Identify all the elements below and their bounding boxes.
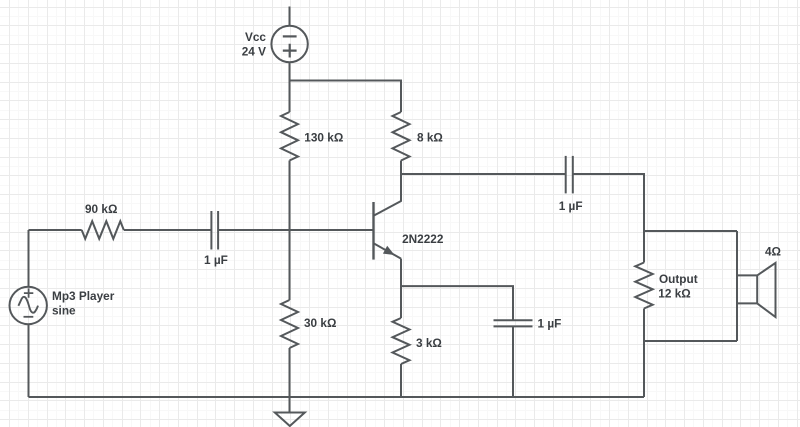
svg-text:1 µF: 1 µF xyxy=(559,199,583,213)
wire speaker loop top xyxy=(644,230,737,232)
wire emitter to R6 xyxy=(400,259,402,318)
capacitor C2 output 1uF xyxy=(566,156,573,194)
svg-text:sine: sine xyxy=(52,303,76,317)
wire C1 to base xyxy=(218,229,373,231)
svg-text:30 kΩ: 30 kΩ xyxy=(304,316,336,330)
svg-text:Output: Output xyxy=(659,272,698,286)
wire top branch node to 8k column xyxy=(290,81,402,113)
resistor R2 8 kOhm xyxy=(393,112,410,161)
source V1 Mp3 Player sine xyxy=(10,287,47,324)
svg-text:1 µF: 1 µF xyxy=(204,253,228,267)
speaker LS1 4 Ohm xyxy=(737,263,776,317)
wire bottom rail xyxy=(29,396,645,398)
svg-text:12 kΩ: 12 kΩ xyxy=(658,286,690,300)
svg-text:4Ω: 4Ω xyxy=(765,245,781,259)
wire left rail bottom (source to ground rail) xyxy=(28,324,30,397)
svg-text:Vcc: Vcc xyxy=(245,30,266,44)
wire R6 bottom to bottom rail xyxy=(400,364,402,397)
wire left rail top (input node to source) xyxy=(28,230,30,287)
svg-text:Mp3 Player: Mp3 Player xyxy=(52,289,115,303)
wire speaker loop right xyxy=(736,231,738,341)
wire R5 bottom to bottom rail xyxy=(643,309,645,398)
wire R3 to C1 xyxy=(124,229,212,231)
resistor R1 130 kOhm xyxy=(281,112,298,161)
wire C3 bottom to bottom rail xyxy=(512,326,514,397)
wire C2 to output rail xyxy=(573,174,644,263)
svg-text:90 kΩ: 90 kΩ xyxy=(85,202,117,216)
wire speaker loop bottom xyxy=(644,340,737,342)
resistor R6 3 kOhm xyxy=(393,318,410,364)
resistor R3 90 kOhm xyxy=(82,221,124,239)
capacitor C1 input 1uF xyxy=(211,211,218,250)
resistor R4 30 kOhm xyxy=(281,300,298,348)
wire R2 bottom to collector xyxy=(400,161,402,202)
ground xyxy=(275,413,305,427)
wire top stub above Vcc xyxy=(289,7,291,26)
svg-text:1 µF: 1 µF xyxy=(538,317,562,331)
wire emitter branch to C3 xyxy=(401,286,513,320)
svg-text:24 V: 24 V xyxy=(242,44,266,58)
svg-text:2N2222: 2N2222 xyxy=(402,232,444,246)
resistor R5 Output 12 kOhm xyxy=(635,263,652,309)
label Output 12 kOhm xyxy=(658,272,697,301)
label Vcc 24 V xyxy=(242,30,267,58)
voltage source U1 Vcc xyxy=(271,26,307,62)
label Mp3 Player sine xyxy=(52,289,115,317)
svg-text:8 kΩ: 8 kΩ xyxy=(417,130,443,144)
wire ground stub xyxy=(289,397,291,413)
wire Vcc bottom to R1 top xyxy=(289,62,291,112)
svg-text:130 kΩ: 130 kΩ xyxy=(304,130,343,144)
wire input node to R3 xyxy=(29,229,82,231)
wire R4 bottom to bottom rail xyxy=(289,348,291,397)
capacitor C3 bypass 1uF xyxy=(494,320,533,326)
wire collector node to output cap xyxy=(401,173,566,175)
wire base node to R4 xyxy=(289,230,291,300)
svg-text:3 kΩ: 3 kΩ xyxy=(416,336,442,350)
transistor Q1 2N2222 xyxy=(374,201,402,260)
wire R1 bottom to base node xyxy=(289,161,291,231)
